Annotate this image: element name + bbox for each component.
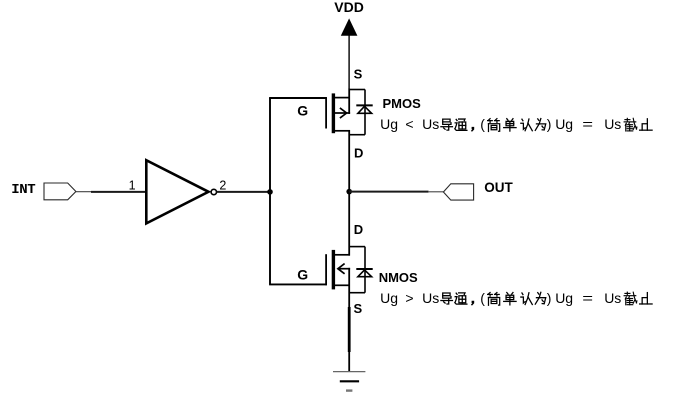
wire NMOS gate (269, 283, 327, 285)
wire VDD to PMOS source (348, 89, 350, 114)
annotation NMOS condition (380, 290, 621, 306)
transistor Q1 PMOS (326, 93, 350, 133)
svg-text:Ug: Ug (555, 290, 573, 306)
svg-text:OUT: OUT (484, 180, 513, 195)
wire gate bus vertical (269, 98, 271, 284)
junction gate node (267, 189, 273, 195)
wire to OUT (349, 191, 428, 193)
svg-text:Us: Us (604, 116, 621, 132)
svg-text:G: G (297, 102, 308, 118)
svg-text:NMOS: NMOS (379, 270, 418, 285)
inverter U1 bubble (211, 189, 216, 194)
svg-text:Us: Us (604, 290, 621, 306)
wire PMOS gate (269, 97, 327, 99)
svg-text:D: D (354, 145, 363, 160)
svg-text:<: < (405, 116, 413, 132)
ground (333, 372, 365, 391)
svg-text:S: S (354, 301, 363, 316)
svg-text:PMOS: PMOS (383, 96, 422, 111)
svg-text:>: > (405, 290, 413, 306)
svg-text:D: D (354, 222, 363, 237)
svg-text:=: = (582, 116, 593, 132)
svg-text:Ug: Ug (555, 116, 573, 132)
svg-text:(: ( (480, 290, 485, 306)
svg-text:=: = (582, 290, 593, 306)
svg-text:Ug: Ug (380, 290, 398, 306)
port INT (44, 183, 76, 200)
junction output node (346, 189, 352, 195)
wire inverter output (217, 191, 270, 193)
power VDD symbol (341, 18, 358, 35)
svg-text:INT: INT (11, 182, 35, 198)
svg-text:G: G (297, 267, 308, 283)
svg-text:S: S (354, 66, 363, 81)
inverter U1 (146, 160, 208, 223)
svg-text:(: ( (480, 116, 485, 132)
wire INT lead (76, 191, 92, 193)
PMOS body diode (349, 90, 373, 135)
svg-text:VDD: VDD (334, 0, 364, 15)
wire NMOS source to ground (348, 268, 350, 372)
port OUT (443, 184, 473, 200)
wire drain rail (348, 130, 350, 256)
svg-text:Ug: Ug (380, 116, 398, 132)
svg-text:): ) (547, 290, 552, 306)
NMOS body diode (349, 247, 373, 293)
svg-text:1: 1 (129, 178, 136, 192)
port OUT lead (428, 191, 443, 193)
svg-text:Us: Us (422, 116, 439, 132)
annotation PMOS condition (380, 116, 621, 132)
transistor Q2 NMOS (326, 250, 350, 290)
svg-text:2: 2 (219, 178, 226, 192)
svg-text:Us: Us (422, 290, 439, 306)
wire input (91, 191, 146, 193)
svg-text:): ) (547, 116, 552, 132)
